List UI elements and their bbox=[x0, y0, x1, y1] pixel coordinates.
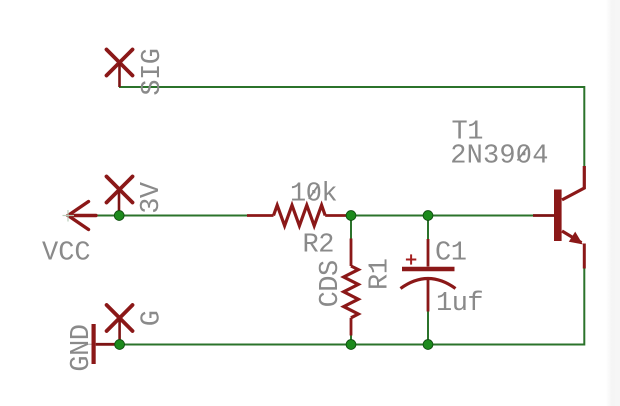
junction node GND bbox=[115, 340, 125, 350]
svg-text:R1: R1 bbox=[366, 259, 396, 290]
junction node C1 top bbox=[423, 211, 433, 221]
transistor T1 emitter lead bbox=[562, 231, 582, 243]
capacitor C1 lead bottom bbox=[427, 280, 430, 312]
svg-text:SIG: SIG bbox=[138, 48, 168, 95]
svg-text:C1: C1 bbox=[435, 238, 466, 268]
capacitor C1 plate top bbox=[402, 267, 455, 271]
svg-text:3V: 3V bbox=[137, 181, 167, 214]
resistor R1 lead bottom bbox=[350, 318, 353, 336]
svg-text:VCC: VCC bbox=[42, 238, 91, 268]
wire node to R1 bbox=[350, 216, 352, 239]
plus sign C1 bbox=[406, 254, 416, 264]
pin tick GND bbox=[86, 343, 92, 345]
junction node R2/R1 bbox=[346, 211, 356, 221]
resistor R1 zigzag bbox=[344, 266, 359, 318]
pin G x-marker bbox=[107, 305, 133, 331]
ground bar bbox=[92, 324, 96, 364]
pin 3V x-marker bbox=[107, 177, 133, 203]
capacitor C1 plate arc bbox=[401, 279, 456, 289]
wire bottom bus bbox=[120, 344, 585, 346]
resistor R2 lead right bbox=[325, 214, 348, 217]
wire emitter to bottom bbox=[583, 268, 585, 346]
svg-text:GND: GND bbox=[67, 324, 97, 371]
transistor T1 base bar bbox=[554, 190, 562, 242]
transistor T1 emitter vertical bbox=[583, 244, 586, 269]
pin tick VCC bbox=[63, 210, 75, 222]
wire SIG horizontal bbox=[119, 86, 584, 88]
wire SIG vertical to collector bbox=[583, 86, 585, 166]
svg-text:10k: 10k bbox=[290, 180, 337, 210]
svg-text:2N3904: 2N3904 bbox=[450, 141, 548, 171]
wire R2 to base bbox=[350, 215, 534, 217]
resistor R2 lead left bbox=[247, 214, 274, 217]
transistor T1 collector lead bbox=[562, 166, 584, 200]
pin SIG stub bbox=[118, 63, 121, 87]
resistor R1 lead top bbox=[350, 239, 353, 267]
slash in zero of 2N3904 bbox=[518, 146, 529, 160]
transistor T1 base lead bbox=[533, 214, 555, 217]
svg-text:G: G bbox=[138, 310, 168, 326]
junction node C1 bottom bbox=[423, 340, 433, 350]
wire C1 to bottom bbox=[427, 311, 429, 345]
svg-text:1uf: 1uf bbox=[436, 289, 483, 319]
transistor T1 emitter arrow bbox=[569, 232, 583, 245]
svg-text:CDS: CDS bbox=[316, 260, 346, 307]
pin SIG x-marker bbox=[107, 50, 133, 76]
wire VCC to R2 bbox=[95, 215, 248, 217]
resistor R2 zigzag bbox=[274, 205, 326, 226]
svg-text:R2: R2 bbox=[303, 231, 334, 261]
capacitor C1 lead top bbox=[427, 239, 430, 267]
ground lead bbox=[96, 343, 117, 346]
supply arrow VCC bbox=[68, 202, 96, 230]
slash in zero of 10k bbox=[309, 185, 319, 199]
junction node 3V bbox=[114, 211, 124, 221]
wire R1 to bottom bbox=[350, 336, 352, 345]
pin 3V stub bbox=[118, 190, 121, 216]
junction node R1 bottom bbox=[346, 340, 356, 350]
pin G stub bbox=[118, 319, 121, 345]
wire node to C1 bbox=[427, 216, 429, 240]
page edge band right bbox=[606, 0, 620, 406]
